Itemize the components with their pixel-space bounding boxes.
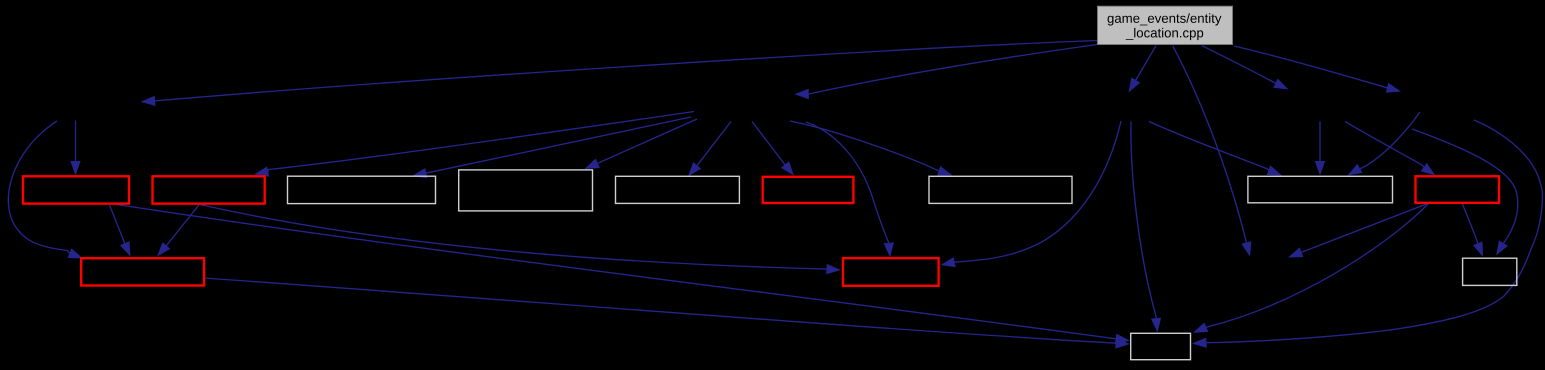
edge D->W8: [1149, 122, 1282, 176]
edge F->W12 (right inner arc): [1412, 129, 1518, 256]
edge R2->R10: [157, 204, 200, 257]
edge B->R2: [254, 112, 694, 177]
edge U1->B: [794, 45, 1097, 100]
edge F->W8: [1348, 112, 1421, 176]
edge U1->A: [141, 41, 1097, 107]
edge B->W4: [585, 119, 698, 169]
box R11 (row3 #2, red): [843, 258, 939, 286]
edge B->W3: [412, 117, 691, 178]
edge R9->G: [1288, 203, 1429, 258]
edge R9->W12: [1462, 203, 1483, 257]
edge R1->R10: [109, 204, 131, 257]
box R1 (row2 #1, red): [23, 176, 129, 203]
edge R9->W13: [1193, 203, 1429, 333]
edge R2->R11: [196, 204, 841, 275]
edge R10->W13: [204, 278, 1130, 349]
edge F->W13 (right outer arc): [1192, 120, 1543, 348]
edge A->R10: [8, 121, 83, 259]
box W8 (row2 #8): [1248, 176, 1393, 203]
box R2 (row2 #2, red): [153, 176, 265, 203]
edge B->R6: [752, 122, 794, 176]
edge A->R1: [70, 121, 80, 176]
box W5 (row2 #5): [616, 176, 740, 203]
box R9 (row2 #9, red): [1416, 176, 1500, 203]
edge E->W8: [1315, 122, 1325, 176]
edge R1->W13: [111, 204, 1131, 344]
box W13 (row4, bottom): [1131, 333, 1191, 359]
edge U1->D: [1129, 46, 1157, 93]
edge B->W5: [688, 122, 731, 177]
box R10 (row3 #1, red): [81, 258, 204, 285]
edge D->R11: [941, 121, 1122, 267]
box W4 (row2 #4, two-line): [459, 170, 593, 211]
edge U1->E: [1202, 46, 1289, 90]
box W7 (row2 #7): [929, 176, 1072, 203]
box W3 (row2 #3): [288, 176, 436, 203]
node U1: game_events/entity_location.cpp (main, grey): [1098, 6, 1233, 44]
edge B->R11: [806, 122, 894, 257]
edge U1->F: [1234, 46, 1401, 93]
edge U1->G: [1173, 46, 1252, 257]
edge E->R9: [1345, 122, 1436, 176]
box R6 (row2 #6, red): [763, 177, 854, 203]
edge D->W13: [1131, 122, 1161, 333]
box W12 (row3 #3): [1463, 258, 1517, 285]
edge B->W7: [790, 121, 953, 176]
